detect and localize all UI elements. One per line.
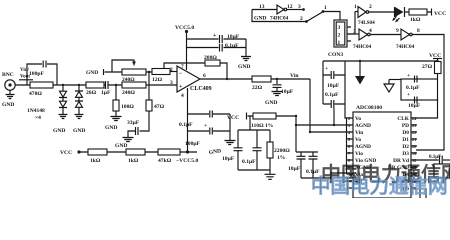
- svg-text:Vio: Vio: [355, 151, 363, 157]
- svg-text:GND: GND: [265, 100, 277, 106]
- svg-text:47Ω: 47Ω: [154, 104, 165, 110]
- svg-text:CLC409: CLC409: [190, 86, 212, 92]
- svg-text:19: 19: [412, 151, 416, 156]
- svg-text:10μF: 10μF: [281, 89, 294, 95]
- svg-text:2: 2: [338, 33, 341, 39]
- svg-text:Vo: Vo: [355, 137, 361, 143]
- svg-text:240Ω: 240Ω: [122, 77, 135, 83]
- svg-text:Vo: Vo: [355, 116, 361, 122]
- svg-text:−VCC5.0: −VCC5.0: [176, 158, 199, 164]
- svg-text:+: +: [179, 84, 183, 90]
- svg-text:10μF: 10μF: [288, 166, 301, 172]
- svg-text:0.1μF: 0.1μF: [325, 92, 339, 98]
- svg-text:3: 3: [298, 4, 301, 10]
- svg-text:100Ω: 100Ω: [121, 104, 134, 110]
- svg-text:23: 23: [412, 123, 416, 128]
- svg-text:+: +: [407, 92, 410, 98]
- svg-text:20: 20: [412, 144, 416, 149]
- svg-text:+: +: [407, 73, 410, 79]
- svg-text:47kΩ: 47kΩ: [158, 158, 172, 164]
- svg-text:12Ω: 12Ω: [152, 77, 163, 83]
- svg-text:33μF: 33μF: [127, 120, 140, 126]
- svg-text:2200Ω: 2200Ω: [274, 148, 290, 154]
- svg-text:10μF: 10μF: [227, 34, 240, 40]
- svg-text:GND: GND: [2, 102, 14, 108]
- svg-text:200Ω: 200Ω: [204, 55, 217, 61]
- svg-text:13: 13: [259, 4, 265, 10]
- svg-text:D0: D0: [402, 130, 409, 136]
- svg-text:5: 5: [348, 137, 350, 142]
- svg-text:110Ω 1%: 110Ω 1%: [251, 123, 274, 129]
- svg-text:9: 9: [396, 28, 399, 34]
- svg-text:Vin: Vin: [290, 73, 299, 79]
- svg-text:6: 6: [203, 73, 206, 79]
- svg-text:74HC04: 74HC04: [353, 44, 372, 50]
- svg-text:10μF: 10μF: [327, 83, 340, 89]
- svg-text:GND: GND: [73, 128, 85, 134]
- svg-text:100μF: 100μF: [185, 141, 201, 147]
- svg-text:4: 4: [181, 93, 184, 99]
- svg-text:4: 4: [369, 28, 372, 34]
- svg-text:74LS04: 74LS04: [358, 20, 375, 26]
- svg-text:0.1μF: 0.1μF: [306, 169, 320, 175]
- svg-text:CLK: CLK: [397, 116, 409, 122]
- svg-text:26Ω: 26Ω: [86, 90, 97, 96]
- svg-text:GND: GND: [53, 128, 65, 134]
- svg-text:0.1μF: 0.1μF: [429, 155, 441, 160]
- svg-text:1kΩ: 1kΩ: [410, 17, 421, 23]
- svg-text:AGND: AGND: [355, 123, 371, 129]
- svg-text:74HC04: 74HC04: [396, 44, 415, 50]
- svg-text:3: 3: [348, 123, 350, 128]
- svg-text:×4: ×4: [35, 115, 41, 121]
- svg-text:22Ω: 22Ω: [252, 85, 263, 91]
- svg-text:D2: D2: [402, 144, 409, 150]
- svg-text:BNC: BNC: [2, 72, 14, 78]
- svg-text:D1: D1: [402, 137, 409, 143]
- svg-text:8: 8: [417, 28, 420, 34]
- svg-text:1kΩ: 1kΩ: [90, 158, 101, 164]
- svg-text:18: 18: [412, 158, 416, 163]
- svg-text:240Ω: 240Ω: [122, 90, 135, 96]
- svg-text:100pF: 100pF: [29, 71, 45, 77]
- svg-text:7: 7: [181, 64, 184, 70]
- svg-text:2: 2: [369, 4, 372, 10]
- svg-text:D3: D3: [402, 151, 409, 157]
- svg-text:1: 1: [354, 4, 357, 10]
- svg-text:+: +: [204, 123, 207, 129]
- svg-text:VCC: VCC: [227, 115, 239, 121]
- svg-text:1N4148: 1N4148: [27, 108, 45, 114]
- svg-text:0.1μF: 0.1μF: [179, 122, 193, 128]
- svg-text:12: 12: [287, 4, 293, 10]
- svg-text:10μF: 10μF: [222, 156, 235, 162]
- svg-text:1%: 1%: [277, 155, 286, 161]
- svg-text:10μF: 10μF: [408, 103, 421, 109]
- svg-text:470Ω: 470Ω: [29, 91, 42, 97]
- svg-text:2: 2: [170, 67, 173, 73]
- svg-text:1μF: 1μF: [101, 90, 111, 96]
- svg-text:8: 8: [348, 158, 350, 163]
- svg-text:3: 3: [353, 29, 356, 35]
- svg-text:1: 1: [338, 40, 341, 46]
- svg-text:3: 3: [170, 80, 173, 86]
- svg-text:VCC: VCC: [60, 150, 72, 156]
- svg-text:0.1μF: 0.1μF: [225, 43, 239, 49]
- svg-text:+: +: [213, 33, 217, 39]
- svg-text:3: 3: [338, 25, 341, 31]
- svg-text:VCC: VCC: [429, 53, 441, 59]
- svg-text:27Ω: 27Ω: [422, 64, 433, 70]
- svg-text:VCC5.0: VCC5.0: [175, 25, 194, 31]
- svg-text:2: 2: [348, 116, 350, 121]
- svg-text:VCC: VCC: [434, 11, 446, 17]
- svg-text:−: −: [179, 71, 183, 77]
- svg-text:GND: GND: [115, 143, 127, 149]
- svg-text:22: 22: [412, 130, 416, 135]
- svg-text:1: 1: [324, 5, 327, 11]
- svg-text:CON3: CON3: [328, 52, 343, 58]
- svg-text:ADC08100: ADC08100: [356, 105, 382, 111]
- svg-text:GND: GND: [254, 16, 266, 22]
- svg-text:Vin: Vin: [355, 130, 363, 136]
- svg-text:0.1μF: 0.1μF: [242, 159, 256, 165]
- svg-text:+: +: [325, 66, 328, 72]
- svg-text:PD: PD: [402, 123, 409, 129]
- svg-text:21: 21: [412, 137, 416, 142]
- svg-text:74HC04: 74HC04: [270, 16, 289, 22]
- svg-text:GND: GND: [105, 125, 117, 131]
- svg-text:GND: GND: [238, 64, 250, 70]
- svg-text:AGND: AGND: [355, 144, 371, 150]
- svg-text:中国电力通信网: 中国电力通信网: [311, 175, 448, 198]
- svg-text:0.1μF: 0.1μF: [406, 85, 420, 91]
- svg-text:2: 2: [300, 16, 303, 22]
- svg-text:GND: GND: [86, 70, 98, 76]
- svg-text:1kΩ: 1kΩ: [128, 158, 139, 164]
